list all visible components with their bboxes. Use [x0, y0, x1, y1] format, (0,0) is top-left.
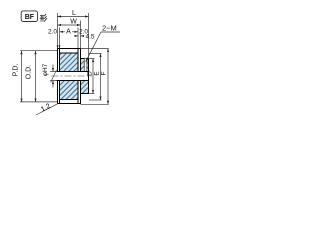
dimension phi H7 (bore)	[50, 65, 57, 88]
svg-text:2−M: 2−M	[102, 24, 117, 33]
hub section (hatched)	[81, 59, 89, 94]
bore (white band)	[57, 59, 89, 94]
flange bottom edge	[58, 103, 81, 105]
toothed body section (hatched)	[60, 53, 79, 100]
svg-text:D: D	[86, 71, 93, 76]
set screw hole in hub	[84, 58, 87, 71]
chamfer callout 1.2	[36, 103, 58, 115]
dimension L	[58, 13, 89, 59]
dimension O.D.	[35, 51, 37, 102]
svg-text:O.D.: O.D.	[26, 65, 33, 79]
svg-text:W: W	[70, 19, 77, 26]
dimension E	[89, 54, 102, 101]
kanji kata (shape) glyph	[40, 14, 47, 21]
svg-text:P.D.: P.D.	[13, 64, 20, 77]
svg-text:2.0: 2.0	[48, 29, 57, 36]
dimension P.D.	[20, 51, 57, 102]
set screw callout 2-M	[86, 24, 120, 62]
centerline	[52, 75, 93, 77]
svg-text:4.5: 4.5	[86, 34, 95, 41]
svg-text:E: E	[93, 71, 100, 76]
svg-text:φH7: φH7	[42, 63, 49, 76]
dimension A	[60, 28, 79, 49]
svg-text:BF: BF	[25, 14, 35, 21]
svg-text:F: F	[101, 71, 108, 75]
svg-text:L: L	[72, 10, 76, 17]
BF type label box	[21, 11, 37, 22]
dimension D (hub dia)	[89, 59, 95, 94]
flange top edge	[58, 48, 81, 50]
svg-text:A: A	[66, 29, 71, 36]
dimension F (flange dia)	[81, 49, 109, 105]
left flange	[58, 49, 60, 104]
right flange	[78, 49, 81, 104]
dimension W	[58, 21, 81, 49]
